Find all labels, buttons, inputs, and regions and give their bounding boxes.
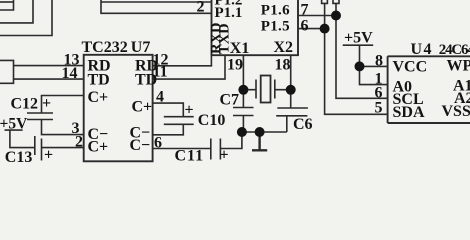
svg-text:C10: C10	[198, 112, 226, 129]
svg-text:P1.5: P1.5	[261, 19, 290, 35]
power +5V left	[5, 130, 35, 148]
node dot ground B	[255, 127, 265, 137]
svg-text:C7: C7	[220, 92, 240, 109]
svg-text:TC232: TC232	[82, 39, 128, 56]
capacitor C11	[211, 139, 221, 160]
svg-text:19: 19	[227, 57, 243, 74]
svg-text:C6: C6	[293, 116, 313, 133]
wire pin6 P1.5	[298, 28, 325, 30]
svg-text:+: +	[220, 147, 229, 164]
wire pin4 C+	[153, 103, 184, 117]
svg-text:2: 2	[197, 0, 205, 16]
svg-text:8: 8	[375, 53, 383, 70]
IC U7 TC232 box	[84, 55, 153, 162]
svg-text:C+: C+	[132, 99, 153, 116]
wire P1.1	[101, 0, 212, 13]
wire pin12 RD to RXD	[153, 55, 212, 66]
svg-text:18: 18	[275, 57, 291, 74]
svg-text:6: 6	[154, 135, 162, 152]
svg-text:7: 7	[301, 1, 309, 18]
wire ground rail	[242, 131, 287, 133]
capacitor C10	[164, 117, 194, 125]
svg-text:2: 2	[75, 134, 83, 151]
wire RD	[14, 65, 84, 67]
svg-text:C13: C13	[5, 149, 33, 166]
wire SCL net	[336, 16, 388, 99]
IC U4 24C64 box	[388, 56, 470, 123]
svg-text:P1.6: P1.6	[261, 2, 290, 18]
connector J1	[0, 60, 14, 83]
node dot P1.6/SCL	[331, 11, 341, 21]
wire pin5 C-	[153, 124, 184, 135]
wire	[0, 1, 14, 3]
svg-text:VSS: VSS	[442, 103, 470, 120]
svg-text:VCC: VCC	[393, 59, 428, 76]
IC U6 MCU box	[212, 0, 299, 55]
svg-text:5: 5	[375, 100, 383, 117]
wire X1 pin19	[242, 55, 244, 90]
wire C11 to ground node	[220, 132, 242, 149]
wire	[0, 0, 14, 10]
svg-text:+: +	[185, 102, 194, 119]
svg-text:24C64: 24C64	[439, 42, 470, 58]
capacitor C7	[233, 90, 254, 132]
wire VCC pin8	[360, 65, 388, 67]
wire TD	[14, 78, 84, 80]
node dot P1.5/SDA	[320, 24, 330, 34]
svg-text:U7: U7	[131, 39, 151, 56]
wire P1.2	[101, 1, 212, 3]
svg-text:C12: C12	[11, 96, 39, 113]
capacitor C6	[276, 90, 308, 132]
wire pin6 C-	[153, 148, 211, 150]
crystal Y1	[243, 80, 290, 99]
svg-text:C−: C−	[130, 137, 151, 154]
svg-text:+5V: +5V	[0, 115, 28, 132]
node dot X1	[238, 85, 248, 95]
node dot +5V/VCC/A0	[355, 61, 365, 71]
svg-text:U4: U4	[411, 41, 434, 58]
svg-text:TD: TD	[88, 72, 110, 89]
wire pin11 TD to TXD	[153, 55, 225, 79]
wire A0 pin1	[360, 66, 388, 84]
svg-text:SDA: SDA	[393, 104, 425, 121]
svg-text:C+: C+	[88, 139, 109, 156]
svg-text:C11: C11	[175, 148, 205, 165]
resistor R2 (cut)	[333, 0, 339, 16]
svg-text:4: 4	[156, 89, 164, 106]
svg-text:6: 6	[301, 18, 309, 35]
svg-text:14: 14	[62, 65, 78, 82]
ground	[252, 132, 267, 150]
svg-text:WP: WP	[447, 58, 470, 75]
svg-text:P1.1: P1.1	[215, 5, 243, 21]
wire pin3 C-	[42, 120, 84, 135]
wire	[0, 0, 33, 23]
node dot ground A	[237, 127, 247, 137]
svg-text:TD: TD	[135, 72, 157, 89]
wire X2 pin18	[290, 55, 292, 90]
svg-text:C+: C+	[88, 89, 109, 106]
wire pin1 C+	[42, 96, 84, 114]
resistor R1 (cut)	[322, 0, 328, 29]
svg-text:+5V: +5V	[344, 30, 373, 47]
power +5V right	[343, 45, 374, 66]
node dot X2	[286, 85, 296, 95]
capacitor C12	[27, 113, 53, 120]
capacitor C13	[35, 136, 42, 161]
svg-text:X1: X1	[230, 40, 250, 57]
wire SDA net	[325, 29, 388, 115]
svg-text:X2: X2	[274, 39, 294, 56]
svg-text:+: +	[42, 95, 51, 112]
svg-text:+: +	[44, 147, 53, 164]
wire	[0, 0, 52, 36]
wire pin2 C+	[42, 147, 84, 149]
wire pin7 P1.6	[298, 15, 336, 17]
